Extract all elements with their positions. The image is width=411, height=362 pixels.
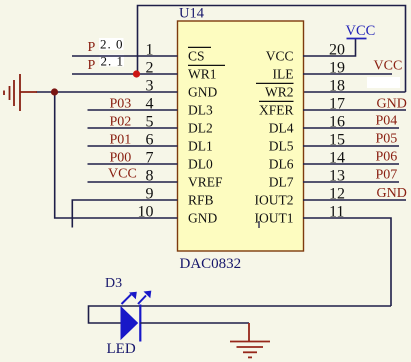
svg-text:14: 14: [329, 150, 345, 167]
svg-text:19: 19: [329, 60, 345, 77]
svg-text:GND: GND: [377, 186, 407, 201]
svg-text:P05: P05: [376, 132, 398, 147]
pin name WR1 with overline: [188, 65, 225, 81]
svg-text:GND: GND: [377, 97, 407, 112]
svg-text:P02: P02: [110, 115, 132, 130]
svg-text:8: 8: [146, 168, 154, 185]
wire pin 3 (GND net): [36, 91, 178, 93]
svg-text:GND: GND: [188, 211, 217, 226]
svg-text:CS: CS: [188, 49, 205, 64]
wire pin 11 down to LED row: [303, 218, 391, 306]
svg-text:VREF: VREF: [188, 175, 223, 190]
wire pin 9 (RFB stub): [72, 200, 177, 228]
wire pin 17: [303, 109, 406, 111]
svg-text:P07: P07: [376, 168, 398, 183]
pin name WR2 with overline: [256, 83, 294, 99]
svg-text:DL7: DL7: [269, 175, 294, 190]
svg-text:P06: P06: [376, 150, 398, 165]
LED arrow 1: [122, 292, 137, 304]
port label P 2.0: [88, 37, 124, 56]
svg-text:VCC: VCC: [266, 49, 294, 64]
svg-text:ILE: ILE: [273, 67, 294, 82]
svg-text:WR2: WR2: [265, 85, 294, 100]
svg-text:P03: P03: [110, 97, 132, 112]
svg-text:12: 12: [329, 186, 345, 203]
svg-text:17: 17: [329, 96, 345, 113]
ground symbol (bottom): [230, 323, 270, 357]
svg-text:DL6: DL6: [269, 157, 294, 172]
wire pin 2: [72, 73, 178, 75]
svg-text:IOUT1: IOUT1: [255, 211, 294, 226]
component U14 body: [178, 21, 304, 251]
wire pin 15: [303, 145, 399, 147]
svg-text:18: 18: [329, 78, 345, 95]
svg-text:11: 11: [329, 204, 344, 221]
svg-text:DL3: DL3: [188, 103, 213, 118]
svg-text:9: 9: [146, 186, 154, 203]
svg-text:P00: P00: [110, 151, 132, 166]
svg-text:15: 15: [329, 132, 345, 149]
diode D3 cathode bar: [139, 305, 141, 342]
svg-text:LED: LED: [107, 341, 136, 357]
white highlight box behind 2.0: [99, 38, 124, 50]
wire pin 12: [303, 199, 406, 201]
svg-text:20: 20: [329, 42, 345, 59]
svg-text:VCC: VCC: [108, 167, 137, 182]
svg-text:D3: D3: [105, 276, 122, 291]
svg-text:DL1: DL1: [188, 139, 213, 154]
wire pin 4: [88, 109, 178, 111]
svg-text:GND: GND: [188, 85, 217, 100]
wire pin 16: [303, 127, 399, 129]
wire pin 20 to VCC port: [303, 39, 356, 57]
wire pin 6: [88, 145, 178, 147]
pin name XFER with overline: [259, 101, 294, 117]
svg-text:2: 2: [146, 60, 154, 77]
wire pin 19: [303, 73, 392, 75]
svg-text:DL0: DL0: [188, 157, 213, 172]
junction dot (GND net): [51, 88, 58, 95]
LED arrow 2: [138, 291, 151, 304]
white highlight box behind 2.1: [100, 55, 125, 67]
wire: LED top feed: [89, 306, 392, 323]
svg-text:4: 4: [146, 96, 154, 113]
svg-text:U14: U14: [179, 6, 205, 22]
svg-text:2. 1: 2. 1: [101, 54, 125, 69]
svg-text:VCC: VCC: [374, 59, 403, 74]
wire pin 14: [303, 163, 399, 165]
svg-text:IOUT2: IOUT2: [255, 193, 294, 208]
svg-text:DL4: DL4: [269, 121, 294, 136]
wire pin 10 to ground junction: [55, 92, 178, 218]
white highlight box (right): [367, 77, 400, 88]
svg-text:DL2: DL2: [188, 121, 213, 136]
wire pin 8 (VCC net): [88, 181, 178, 183]
svg-text:2. 0: 2. 0: [100, 37, 124, 52]
wire pin 13: [303, 181, 399, 183]
svg-text:DAC0832: DAC0832: [180, 256, 242, 272]
svg-text:10: 10: [138, 204, 154, 221]
svg-text:P01: P01: [110, 133, 132, 148]
svg-text:DL5: DL5: [269, 139, 294, 154]
junction dot (pin 2 / WR): [133, 70, 140, 77]
svg-text:6: 6: [146, 132, 154, 149]
wire: LED cathode to ground: [140, 322, 249, 324]
svg-text:1: 1: [146, 42, 154, 59]
svg-text:P: P: [88, 40, 96, 55]
svg-text:P04: P04: [376, 114, 398, 129]
svg-text:5: 5: [146, 114, 154, 131]
diode D3 triangle: [121, 307, 138, 339]
ground symbol (left, earth): [4, 74, 37, 111]
svg-text:WR1: WR1: [188, 67, 217, 82]
svg-text:VCC: VCC: [346, 23, 376, 39]
power port VCC (top, blue): [346, 23, 376, 39]
svg-text:3: 3: [146, 78, 154, 95]
svg-text:RFB: RFB: [188, 193, 214, 208]
wire: top route pin2 junction to pin18: [138, 6, 406, 93]
svg-text:13: 13: [329, 168, 345, 185]
wire pin 18 (WR2): [303, 91, 406, 93]
wire pin 7: [88, 163, 178, 165]
wire pin 1: [72, 55, 178, 57]
svg-text:7: 7: [146, 150, 154, 167]
svg-text:16: 16: [329, 114, 345, 131]
svg-text:XFER: XFER: [259, 103, 294, 118]
pin name CS with overline: [188, 47, 211, 63]
wire pin 5: [88, 127, 178, 129]
port label P 2.1: [88, 54, 125, 74]
text cursor mark under IOUT1: [258, 221, 260, 228]
svg-text:P: P: [88, 58, 96, 73]
